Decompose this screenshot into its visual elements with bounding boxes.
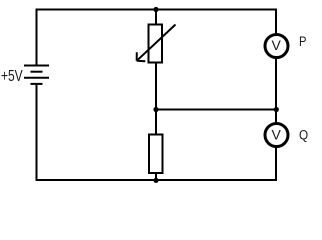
svg-text:V: V <box>272 126 282 142</box>
svg-text:+5V: +5V <box>1 66 23 84</box>
junction node C (voltmeter Q tap) <box>274 107 279 112</box>
wire middle horizontal (junction B to junction C) <box>155 109 277 111</box>
wire middle column lower (junction B to resistor R2) <box>155 109 157 135</box>
wire middle column bottom (resistor R2 to bottom rail) <box>155 173 157 182</box>
wire right rail top (top rail to voltmeter P) <box>275 9 277 36</box>
junction node A (top rail / variable resistor) <box>153 7 158 12</box>
variable resistor R1 <box>137 25 176 63</box>
wire left rail lower (battery to bottom rail) <box>36 84 38 181</box>
wire middle column mid (variable resistor to junction B) <box>155 63 157 111</box>
voltmeter P (U1) <box>265 35 288 58</box>
svg-text:Q: Q <box>299 126 308 142</box>
wire right rail middle (voltmeter P to junction C) <box>275 58 277 124</box>
wire top rail <box>36 9 278 11</box>
wire middle column top (junction A to variable resistor) <box>155 9 157 25</box>
svg-text:P: P <box>299 34 306 49</box>
wire bottom rail <box>36 179 278 181</box>
voltmeter Q (U2) <box>265 124 288 147</box>
svg-text:V: V <box>272 37 282 53</box>
resistor R2 <box>149 135 163 174</box>
battery B1 <box>24 66 49 84</box>
wire right rail bottom (voltmeter Q to bottom rail) <box>275 147 277 182</box>
junction node B (between R1 and R2) <box>153 107 158 112</box>
junction node D (bottom rail / resistor R2) <box>153 178 158 183</box>
wire left rail upper (top rail to battery) <box>36 9 38 67</box>
